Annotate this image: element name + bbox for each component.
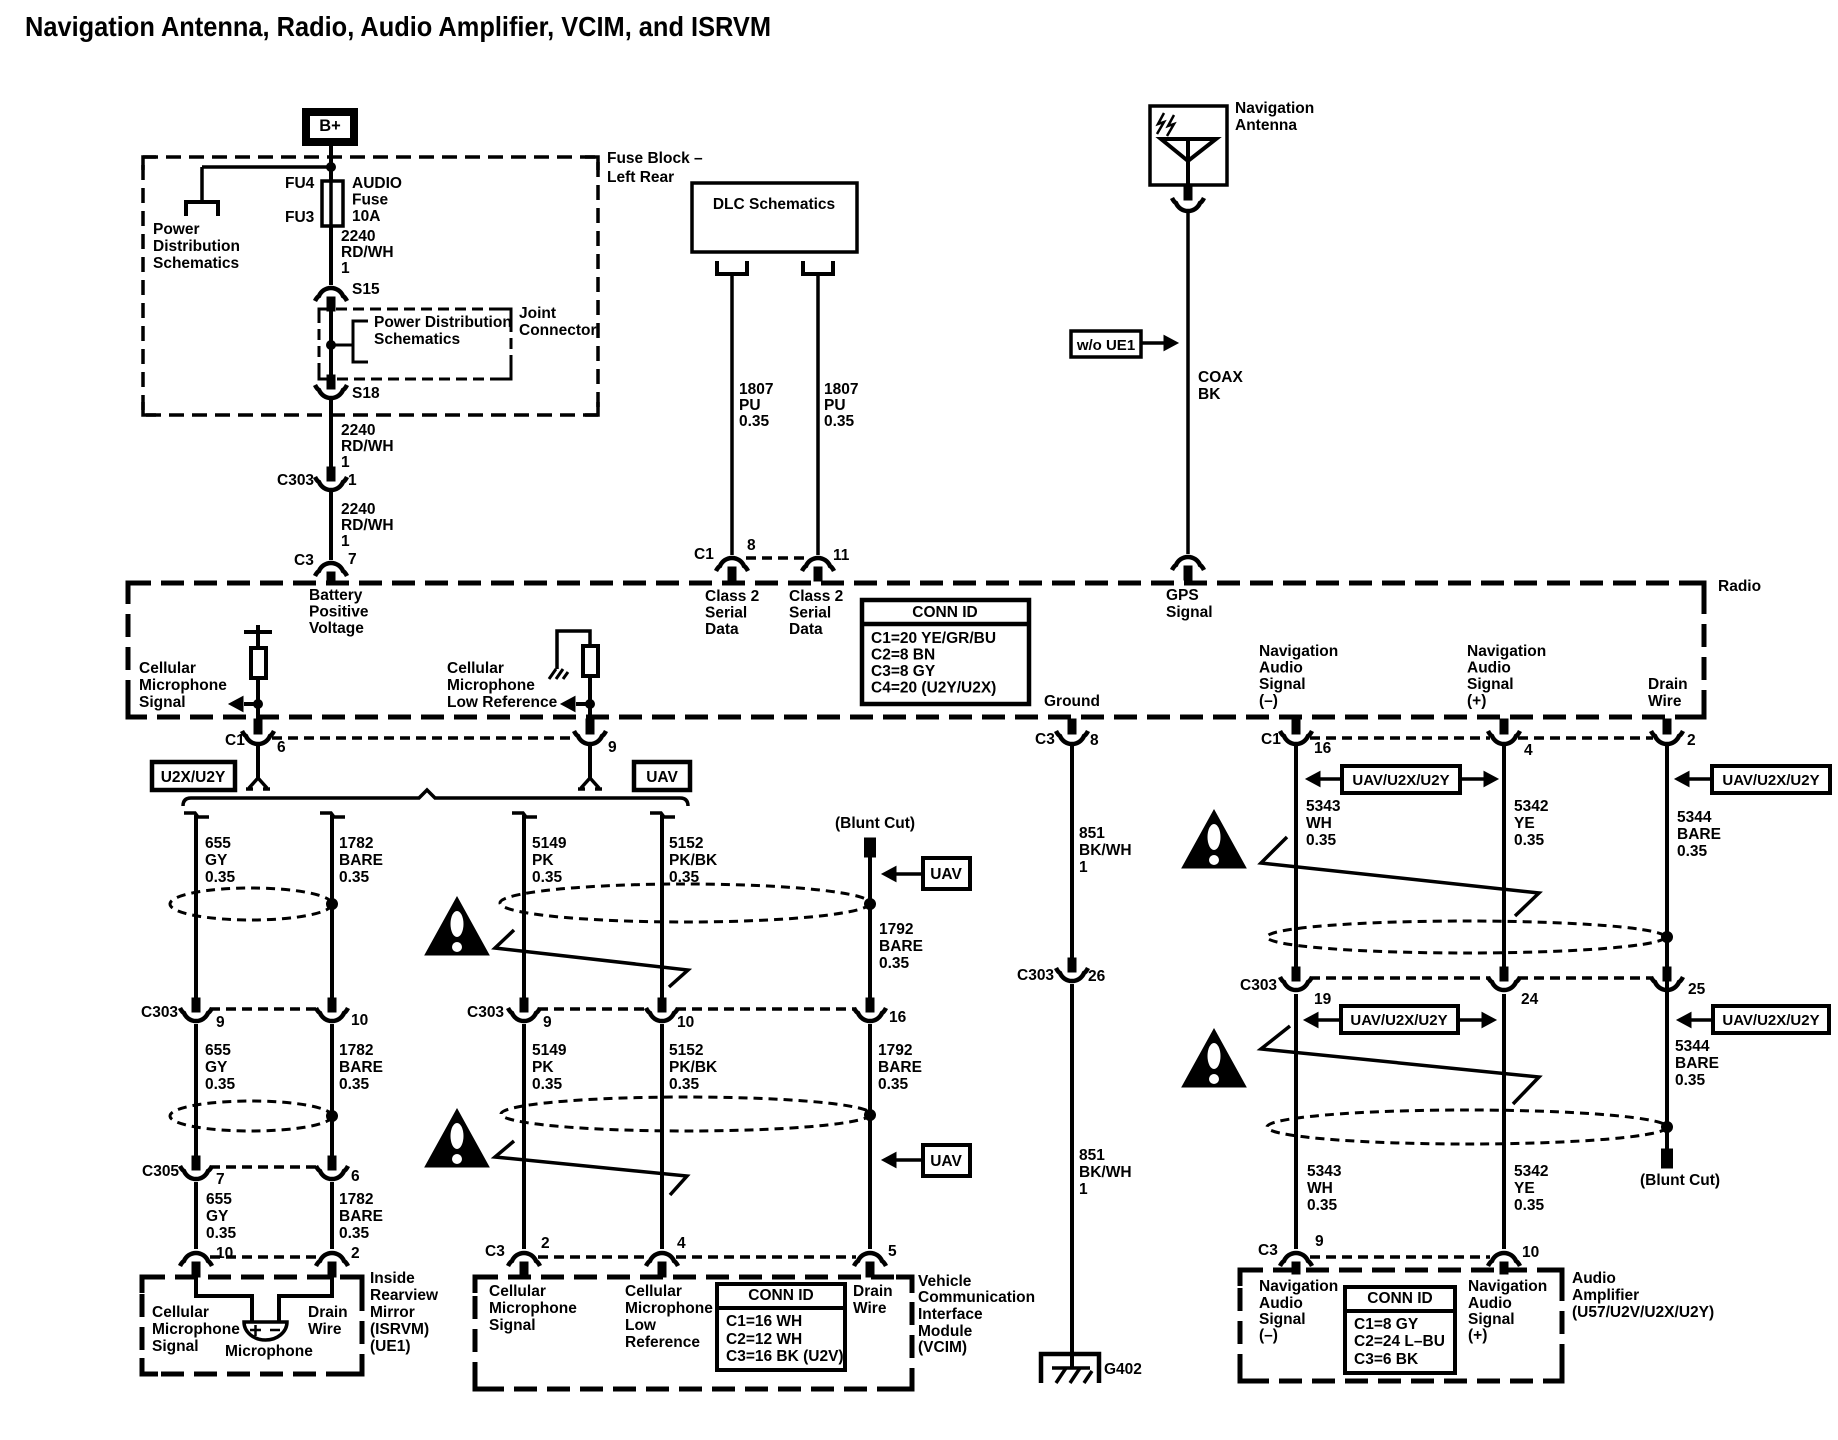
option tag U2X/U2Y bbox=[152, 762, 235, 790]
svg-text:BARE: BARE bbox=[878, 1059, 922, 1076]
VCIM dashed box Vehicle Communication Interface Module bbox=[475, 1277, 912, 1389]
svg-text:UAV: UAV bbox=[646, 769, 678, 786]
svg-text:1792: 1792 bbox=[878, 1042, 912, 1059]
svg-text:0.35: 0.35 bbox=[1306, 832, 1337, 849]
svg-text:BK/WH: BK/WH bbox=[1079, 1164, 1132, 1181]
connector C1 pin 2 drain bbox=[1663, 719, 1671, 734]
wire 1782 BARE segment 2 bbox=[330, 1024, 334, 1157]
svg-text:Serial: Serial bbox=[789, 605, 831, 622]
svg-text:WH: WH bbox=[1306, 815, 1332, 832]
svg-text:Joint: Joint bbox=[519, 305, 556, 322]
svg-text:(Blunt Cut): (Blunt Cut) bbox=[835, 815, 915, 832]
twisted pair ellipse wires 3-4-5 bbox=[500, 884, 870, 922]
junction dot bbox=[1662, 932, 1673, 943]
connector symbol power distribution feed bbox=[186, 202, 218, 216]
wire 5343 WH 0.35 bbox=[1294, 746, 1298, 968]
junction dot bbox=[865, 1110, 876, 1121]
wire 1782 BARE segment 3 bbox=[330, 1182, 334, 1249]
svg-text:C3: C3 bbox=[294, 552, 314, 569]
svg-text:5152: 5152 bbox=[669, 1042, 703, 1059]
svg-text:16: 16 bbox=[1314, 740, 1332, 757]
svg-text:0.35: 0.35 bbox=[206, 1225, 237, 1242]
fuse FU4/FU3 AUDIO Fuse 10A bbox=[322, 181, 343, 226]
svg-text:1807: 1807 bbox=[739, 381, 773, 398]
svg-text:0.35: 0.35 bbox=[339, 869, 370, 886]
svg-text:8: 8 bbox=[747, 537, 756, 554]
connector C303 pins 9 10 left bbox=[192, 998, 200, 1012]
svg-text:1: 1 bbox=[341, 454, 350, 471]
svg-text:C2=8 BN: C2=8 BN bbox=[871, 647, 935, 664]
fault zigzag 2 bbox=[495, 1141, 687, 1195]
wire branch to power distribution bbox=[327, 163, 336, 172]
wire 1792 BARE segment 2 bbox=[868, 1024, 872, 1249]
svg-text:851: 851 bbox=[1079, 825, 1105, 842]
svg-text:Wire: Wire bbox=[308, 1321, 342, 1338]
svg-text:C4=20 (U2Y/U2X): C4=20 (U2Y/U2X) bbox=[871, 680, 996, 697]
svg-text:YE: YE bbox=[1514, 1180, 1535, 1197]
connector C303 pins 9 10 16 right bbox=[520, 998, 528, 1012]
svg-text:10: 10 bbox=[216, 1245, 233, 1262]
svg-text:Power Distribution: Power Distribution bbox=[374, 314, 512, 331]
connector C1 pin 4 nav audio plus bbox=[1500, 719, 1508, 734]
DLC connector bracket right bbox=[803, 261, 833, 274]
svg-text:5149: 5149 bbox=[532, 1042, 567, 1059]
svg-text:Signal: Signal bbox=[1468, 1311, 1515, 1328]
wire COAX BK bbox=[1186, 213, 1190, 554]
svg-text:Cellular: Cellular bbox=[447, 660, 504, 677]
svg-text:1792: 1792 bbox=[879, 921, 913, 938]
power symbol B+ bbox=[306, 112, 354, 142]
svg-text:Signal: Signal bbox=[1467, 676, 1514, 693]
connector C1 pin 16 nav audio minus bbox=[1292, 719, 1300, 734]
svg-text:0.35: 0.35 bbox=[205, 869, 236, 886]
svg-text:UAV/U2X/U2Y: UAV/U2X/U2Y bbox=[1352, 772, 1449, 789]
svg-text:Navigation: Navigation bbox=[1259, 1278, 1338, 1295]
wire 851 BK/WH 1 bbox=[1070, 746, 1074, 958]
svg-text:Distribution: Distribution bbox=[153, 238, 240, 255]
blunt cut drain wire bbox=[1662, 1149, 1673, 1168]
dashed connector line bbox=[272, 736, 576, 740]
wire 5342 YE segment 2 bbox=[1502, 994, 1506, 1249]
svg-text:CONN ID: CONN ID bbox=[912, 604, 977, 621]
svg-text:Navigation Antenna, Radio, Aud: Navigation Antenna, Radio, Audio Amplifi… bbox=[25, 11, 771, 42]
svg-text:5344: 5344 bbox=[1675, 1038, 1710, 1055]
svg-text:5149: 5149 bbox=[532, 835, 567, 852]
svg-text:C3: C3 bbox=[1258, 1242, 1278, 1259]
svg-text:Reference: Reference bbox=[625, 1334, 700, 1351]
option tag w/o UE1 bbox=[1071, 331, 1141, 357]
svg-text:GY: GY bbox=[206, 1208, 229, 1225]
resistor cellular microphone low reference bbox=[583, 646, 598, 676]
svg-text:PK: PK bbox=[532, 852, 554, 869]
svg-text:WH: WH bbox=[1307, 1180, 1333, 1197]
svg-text:Signal: Signal bbox=[1259, 676, 1306, 693]
connector C3 pin 8 ground bbox=[1068, 719, 1076, 734]
svg-text:UAV/U2X/U2Y: UAV/U2X/U2Y bbox=[1350, 1012, 1447, 1029]
svg-text:GY: GY bbox=[205, 852, 228, 869]
svg-text:Cellular: Cellular bbox=[139, 660, 196, 677]
svg-text:Microphone: Microphone bbox=[225, 1343, 313, 1360]
wire 5149 PK segment 2 bbox=[522, 1024, 526, 1249]
svg-text:AUDIO: AUDIO bbox=[352, 175, 402, 192]
connector C303 pins 19 24 25 bbox=[1292, 967, 1300, 981]
svg-text:7: 7 bbox=[348, 551, 357, 568]
wire 1807 PU 0.35 left bbox=[730, 274, 734, 555]
svg-text:PU: PU bbox=[739, 397, 761, 414]
svg-text:C303: C303 bbox=[1017, 967, 1054, 984]
svg-text:0.35: 0.35 bbox=[669, 1076, 700, 1093]
svg-text:U2X/U2Y: U2X/U2Y bbox=[161, 769, 226, 786]
connector C1 pin 6 bbox=[254, 719, 262, 734]
svg-text:PK: PK bbox=[532, 1059, 554, 1076]
svg-text:Microphone: Microphone bbox=[152, 1321, 240, 1338]
svg-text:2: 2 bbox=[1687, 732, 1696, 749]
svg-text:24: 24 bbox=[1521, 991, 1539, 1008]
svg-text:5342: 5342 bbox=[1514, 1163, 1548, 1180]
svg-text:9: 9 bbox=[608, 739, 617, 756]
wire to microphone right bbox=[279, 1277, 332, 1321]
option tag UAV drain 2 bbox=[923, 1145, 970, 1176]
svg-text:Schematics: Schematics bbox=[153, 255, 239, 272]
svg-text:Mirror: Mirror bbox=[370, 1304, 415, 1321]
svg-text:Navigation: Navigation bbox=[1259, 643, 1338, 660]
svg-text:Communication: Communication bbox=[918, 1289, 1035, 1306]
junction dot bbox=[865, 899, 876, 910]
svg-text:RD/WH: RD/WH bbox=[341, 438, 394, 455]
resistor cellular microphone signal bbox=[244, 625, 272, 632]
wire to microphone left bbox=[196, 1277, 252, 1321]
svg-text:Class 2: Class 2 bbox=[705, 588, 759, 605]
svg-text:Fuse Block –: Fuse Block – bbox=[607, 150, 703, 167]
svg-text:Data: Data bbox=[789, 621, 823, 638]
navigation antenna box bbox=[1150, 106, 1227, 185]
svg-text:5: 5 bbox=[888, 1243, 897, 1260]
splice S15 bbox=[315, 288, 347, 301]
svg-text:C3: C3 bbox=[1035, 731, 1055, 748]
connector ISRVM pin 10 bbox=[180, 1253, 212, 1266]
svg-text:C303: C303 bbox=[1240, 977, 1277, 994]
svg-text:G402: G402 bbox=[1104, 1361, 1142, 1378]
svg-text:0.35: 0.35 bbox=[1307, 1197, 1338, 1214]
svg-text:C3=8 GY: C3=8 GY bbox=[871, 663, 936, 680]
twisted pair ellipse wires 1-2 bbox=[170, 888, 332, 920]
wire 5152 PK/BK segment 2 bbox=[660, 1024, 664, 1249]
svg-text:UAV/U2X/U2Y: UAV/U2X/U2Y bbox=[1722, 1012, 1819, 1029]
ground G402 bbox=[1041, 1354, 1099, 1383]
svg-text:UAV: UAV bbox=[930, 866, 962, 883]
svg-text:Rearview: Rearview bbox=[370, 1287, 439, 1304]
DLC connector bracket left bbox=[717, 261, 747, 274]
svg-text:UAV: UAV bbox=[930, 1153, 962, 1170]
svg-text:0.35: 0.35 bbox=[739, 413, 770, 430]
svg-text:(VCIM): (VCIM) bbox=[918, 1339, 967, 1356]
svg-text:BARE: BARE bbox=[339, 852, 383, 869]
svg-text:C1: C1 bbox=[694, 546, 714, 563]
svg-text:w/o UE1: w/o UE1 bbox=[1076, 337, 1135, 354]
warning triangle 2 bbox=[425, 1109, 489, 1167]
svg-text:(ISRVM): (ISRVM) bbox=[370, 1321, 429, 1338]
svg-text:Drain: Drain bbox=[853, 1283, 893, 1300]
svg-text:655: 655 bbox=[205, 835, 231, 852]
svg-text:Audio: Audio bbox=[1468, 1295, 1512, 1312]
wire 5152 PK/BK cellular mic low ref bbox=[650, 813, 675, 817]
svg-text:Low Reference: Low Reference bbox=[447, 694, 558, 711]
svg-text:B+: B+ bbox=[319, 117, 341, 135]
svg-text:10: 10 bbox=[677, 1014, 694, 1031]
svg-text:Fuse: Fuse bbox=[352, 192, 389, 209]
svg-text:7: 7 bbox=[216, 1171, 225, 1188]
svg-text:Power: Power bbox=[153, 221, 200, 238]
svg-text:0.35: 0.35 bbox=[339, 1076, 370, 1093]
fuse block dashed box Fuse Block - Left Rear bbox=[143, 157, 598, 415]
svg-text:Audio: Audio bbox=[1572, 1270, 1616, 1287]
svg-text:Drain: Drain bbox=[308, 1304, 348, 1321]
svg-text:COAX: COAX bbox=[1198, 369, 1243, 386]
svg-text:Interface: Interface bbox=[918, 1306, 983, 1323]
svg-text:C303: C303 bbox=[467, 1004, 504, 1021]
svg-text:2240: 2240 bbox=[341, 501, 375, 518]
svg-text:PU: PU bbox=[824, 397, 846, 414]
svg-text:0.35: 0.35 bbox=[532, 1076, 563, 1093]
wire 5149 PK cellular mic signal vcim bbox=[512, 813, 537, 817]
svg-text:655: 655 bbox=[205, 1042, 231, 1059]
svg-text:(U57/U2V/U2X/U2Y): (U57/U2V/U2X/U2Y) bbox=[1572, 1304, 1714, 1321]
svg-text:DLC Schematics: DLC Schematics bbox=[713, 196, 835, 213]
svg-text:Radio: Radio bbox=[1718, 578, 1761, 595]
svg-text:Cellular: Cellular bbox=[625, 1283, 682, 1300]
twisted pair ellipse 2 wires 1-2 bbox=[170, 1101, 332, 1131]
svg-text:Positive: Positive bbox=[309, 604, 369, 621]
svg-text:Wire: Wire bbox=[853, 1300, 887, 1317]
svg-text:FU4: FU4 bbox=[285, 175, 315, 192]
wire 851 BK/WH 1 segment 2 bbox=[1070, 984, 1074, 1368]
svg-text:(–): (–) bbox=[1259, 1327, 1278, 1344]
svg-text:C1=20 YE/GR/BU: C1=20 YE/GR/BU bbox=[871, 630, 996, 647]
microphone symbol bbox=[244, 1322, 287, 1340]
svg-text:Signal: Signal bbox=[489, 1317, 536, 1334]
svg-text:1782: 1782 bbox=[339, 835, 373, 852]
svg-text:PK/BK: PK/BK bbox=[669, 852, 718, 869]
svg-text:5344: 5344 bbox=[1677, 809, 1712, 826]
svg-text:Signal: Signal bbox=[1166, 604, 1213, 621]
radio dashed box bbox=[128, 583, 1704, 717]
svg-text:CONN ID: CONN ID bbox=[748, 1287, 813, 1304]
svg-text:BARE: BARE bbox=[339, 1059, 383, 1076]
svg-text:Microphone: Microphone bbox=[139, 677, 227, 694]
svg-text:C1=8 GY: C1=8 GY bbox=[1354, 1316, 1419, 1333]
option tag UAV/U2X/U2Y right bbox=[1712, 766, 1830, 793]
wire label 2240 RD/WH 1 bbox=[329, 226, 333, 285]
svg-text:Battery: Battery bbox=[309, 587, 363, 604]
svg-text:Audio: Audio bbox=[1467, 660, 1511, 677]
svg-text:0.35: 0.35 bbox=[1675, 1072, 1706, 1089]
svg-text:(+): (+) bbox=[1468, 1327, 1487, 1344]
junction dot bbox=[1662, 1122, 1673, 1133]
svg-text:10: 10 bbox=[351, 1012, 368, 1029]
svg-text:Voltage: Voltage bbox=[309, 620, 364, 637]
ground hatch low reference bbox=[549, 669, 568, 679]
svg-text:25: 25 bbox=[1688, 981, 1706, 998]
antenna connector bbox=[1184, 187, 1192, 200]
conn id table VCIM bbox=[717, 1284, 845, 1370]
svg-text:1782: 1782 bbox=[339, 1191, 373, 1208]
twisted pair ellipse wires 6-7-8 bbox=[1267, 921, 1665, 953]
splice S18 bbox=[327, 375, 335, 389]
svg-text:9: 9 bbox=[543, 1014, 552, 1031]
svg-text:C2=24 L–BU: C2=24 L–BU bbox=[1354, 1333, 1445, 1350]
antenna signal waves bbox=[1157, 113, 1164, 134]
DLC Schematics box bbox=[692, 183, 857, 252]
svg-text:4: 4 bbox=[1524, 742, 1533, 759]
svg-text:851: 851 bbox=[1079, 1147, 1105, 1164]
wire to harness right bbox=[588, 746, 592, 778]
svg-text:Navigation: Navigation bbox=[1235, 100, 1314, 117]
svg-text:10A: 10A bbox=[352, 208, 380, 225]
svg-text:Inside: Inside bbox=[370, 1270, 415, 1287]
svg-text:0.35: 0.35 bbox=[824, 413, 855, 430]
svg-text:Signal: Signal bbox=[139, 694, 186, 711]
svg-text:Microphone: Microphone bbox=[625, 1300, 713, 1317]
svg-text:2240: 2240 bbox=[341, 228, 375, 245]
svg-text:C3=16 BK (U2V): C3=16 BK (U2V) bbox=[726, 1348, 844, 1365]
svg-text:C1=16 WH: C1=16 WH bbox=[726, 1313, 802, 1330]
svg-text:2240: 2240 bbox=[341, 422, 375, 439]
svg-text:C303: C303 bbox=[277, 472, 314, 489]
svg-text:9: 9 bbox=[1315, 1233, 1324, 1250]
svg-text:0.35: 0.35 bbox=[1514, 832, 1545, 849]
svg-text:C303: C303 bbox=[141, 1004, 178, 1021]
twisted pair ellipse 2 wires 6-7-8 bbox=[1267, 1110, 1667, 1144]
svg-text:Left Rear: Left Rear bbox=[607, 169, 674, 186]
svg-text:6: 6 bbox=[277, 739, 286, 756]
svg-text:C305: C305 bbox=[142, 1163, 179, 1180]
svg-text:PK/BK: PK/BK bbox=[669, 1059, 718, 1076]
svg-text:1: 1 bbox=[341, 533, 350, 550]
svg-text:6: 6 bbox=[351, 1168, 360, 1185]
wire 5344 BARE 0.35 bbox=[1665, 746, 1669, 1150]
svg-text:2: 2 bbox=[351, 1245, 360, 1262]
svg-text:RD/WH: RD/WH bbox=[341, 244, 394, 261]
svg-text:0.35: 0.35 bbox=[878, 1076, 909, 1093]
svg-text:Signal: Signal bbox=[1259, 1311, 1306, 1328]
conn id table radio bbox=[862, 600, 1029, 704]
connector C3 pin 7 radio battery input bbox=[315, 563, 347, 576]
svg-text:BARE: BARE bbox=[879, 938, 923, 955]
fault zigzag 3 bbox=[1261, 837, 1539, 916]
wire B+ to fuse bbox=[329, 146, 333, 182]
svg-text:5152: 5152 bbox=[669, 835, 703, 852]
svg-text:5343: 5343 bbox=[1306, 798, 1341, 815]
svg-text:0.35: 0.35 bbox=[1514, 1197, 1545, 1214]
svg-text:1: 1 bbox=[341, 260, 350, 277]
svg-text:Amplifier: Amplifier bbox=[1572, 1287, 1639, 1304]
svg-text:655: 655 bbox=[206, 1191, 232, 1208]
svg-text:8: 8 bbox=[1090, 732, 1099, 749]
svg-text:1: 1 bbox=[348, 472, 357, 489]
connector C303 pin 26 bbox=[1068, 958, 1076, 972]
svg-text:S18: S18 bbox=[352, 385, 380, 402]
svg-text:Ground: Ground bbox=[1044, 693, 1100, 710]
svg-text:GPS: GPS bbox=[1166, 587, 1199, 604]
option tag UAV bbox=[634, 762, 690, 790]
svg-text:5342: 5342 bbox=[1514, 798, 1548, 815]
audio amplifier dashed box bbox=[1240, 1270, 1562, 1381]
svg-text:1807: 1807 bbox=[824, 381, 858, 398]
wire 655 GY segment 3 bbox=[194, 1182, 198, 1249]
svg-text:Module: Module bbox=[918, 1323, 973, 1340]
svg-text:Vehicle: Vehicle bbox=[918, 1273, 972, 1290]
svg-text:C3: C3 bbox=[485, 1243, 505, 1260]
svg-text:BARE: BARE bbox=[1677, 826, 1721, 843]
svg-text:Data: Data bbox=[705, 621, 739, 638]
svg-text:Microphone: Microphone bbox=[447, 677, 535, 694]
svg-text:(+): (+) bbox=[1467, 693, 1486, 710]
svg-text:FU3: FU3 bbox=[285, 209, 315, 226]
svg-text:(–): (–) bbox=[1259, 693, 1278, 710]
fault zigzag 4 bbox=[1261, 1026, 1539, 1104]
wire label 2240 RD/WH 1 bbox=[329, 400, 333, 468]
svg-text:Antenna: Antenna bbox=[1235, 117, 1297, 134]
svg-text:1: 1 bbox=[1079, 1181, 1088, 1198]
svg-text:Navigation: Navigation bbox=[1467, 643, 1546, 660]
svg-text:11: 11 bbox=[833, 547, 850, 564]
svg-text:0.35: 0.35 bbox=[1677, 843, 1708, 860]
twisted pair ellipse 2 wires 3-4-5 bbox=[501, 1097, 871, 1131]
connector GPS signal bbox=[1172, 557, 1204, 570]
option tag UAV/U2X/U2Y double arrow 2 bbox=[1341, 1006, 1458, 1033]
connector C3 pins 9 10 amplifier bbox=[1280, 1253, 1312, 1266]
wire 1782 BARE drain bbox=[320, 813, 345, 817]
svg-text:C1: C1 bbox=[1261, 731, 1281, 748]
conn id table amplifier bbox=[1345, 1287, 1455, 1373]
connector C1 pin 8 bbox=[716, 558, 748, 571]
svg-text:GY: GY bbox=[205, 1059, 228, 1076]
svg-text:YE: YE bbox=[1514, 815, 1535, 832]
svg-text:1782: 1782 bbox=[339, 1042, 373, 1059]
option tag UAV/U2X/U2Y double arrow bbox=[1342, 766, 1460, 793]
harness brace bbox=[183, 790, 688, 806]
svg-text:Navigation: Navigation bbox=[1468, 1278, 1547, 1295]
svg-text:9: 9 bbox=[216, 1014, 225, 1031]
svg-text:0.35: 0.35 bbox=[339, 1225, 370, 1242]
dashed connector line bbox=[746, 556, 804, 560]
svg-text:4: 4 bbox=[677, 1235, 686, 1252]
svg-text:10: 10 bbox=[1522, 1244, 1539, 1261]
ISRVM dashed box Inside Rearview Mirror bbox=[142, 1277, 362, 1374]
svg-text:Low: Low bbox=[625, 1317, 657, 1334]
svg-text:Wire: Wire bbox=[1648, 693, 1682, 710]
wire 655 GY cellular mic signal bbox=[184, 813, 209, 817]
option tag UAV drain bbox=[923, 858, 970, 889]
connector C1 pin 9 bbox=[586, 719, 594, 734]
svg-text:Cellular: Cellular bbox=[489, 1283, 546, 1300]
connector C1 pin 11 bbox=[802, 558, 834, 571]
wire 5342 YE 0.35 bbox=[1502, 746, 1506, 968]
svg-text:Audio: Audio bbox=[1259, 1295, 1303, 1312]
svg-text:C3=6 BK: C3=6 BK bbox=[1354, 1351, 1419, 1368]
junction dot bbox=[327, 1111, 338, 1122]
connector C305 pins 7 6 bbox=[192, 1156, 200, 1170]
svg-text:C2=12 WH: C2=12 WH bbox=[726, 1331, 802, 1348]
svg-text:0.35: 0.35 bbox=[879, 955, 910, 972]
wire 1807 PU 0.35 right bbox=[816, 274, 820, 555]
svg-text:19: 19 bbox=[1314, 991, 1332, 1008]
svg-text:Serial: Serial bbox=[705, 605, 747, 622]
svg-text:CONN ID: CONN ID bbox=[1367, 1290, 1432, 1307]
svg-text:BARE: BARE bbox=[339, 1208, 383, 1225]
svg-text:BK: BK bbox=[1198, 386, 1221, 403]
svg-text:RD/WH: RD/WH bbox=[341, 517, 394, 534]
